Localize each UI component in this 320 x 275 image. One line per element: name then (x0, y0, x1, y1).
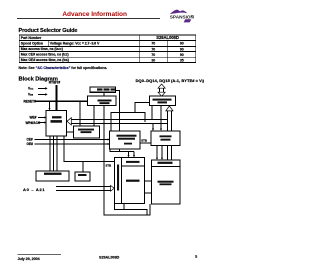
svg-text:70: 70 (151, 47, 155, 51)
svg-text:35: 35 (180, 58, 184, 62)
svg-text:30: 30 (151, 58, 155, 62)
svg-text:70: 70 (151, 42, 155, 46)
svg-text:OE#: OE# (27, 142, 34, 146)
svg-text:Note: See “AC Characteristics”: Note: See “AC Characteristics” for full … (19, 66, 108, 70)
svg-text:Part Number: Part Number (21, 36, 42, 40)
svg-text:S29AL008D: S29AL008D (156, 35, 179, 40)
svg-text:WP#/ACC: WP#/ACC (26, 121, 41, 125)
svg-text:Voltage Range: VCC = 2.7–3.6 V: Voltage Range: VCC = 2.7–3.6 V (50, 42, 100, 46)
svg-text:STB: STB (106, 164, 112, 168)
svg-text:Advance Information: Advance Information (62, 11, 127, 18)
svg-text:CE#: CE# (27, 138, 33, 142)
svg-text:90: 90 (180, 47, 184, 51)
svg-text:S29AL008D: S29AL008D (99, 255, 120, 259)
svg-text:Max access time, ns (tACC): Max access time, ns (tACC) (21, 47, 63, 51)
svg-text:July 29, 2004: July 29, 2004 (18, 257, 41, 261)
svg-text:Speed Option: Speed Option (21, 42, 43, 46)
svg-text:70: 70 (151, 53, 155, 57)
svg-text:VCC: VCC (28, 87, 34, 91)
svg-text:RESET#: RESET# (24, 100, 37, 104)
svg-text:Max CE# access time, ns (tCE): Max CE# access time, ns (tCE) (21, 53, 69, 57)
svg-text:5: 5 (195, 254, 198, 259)
svg-text:WE#: WE# (30, 116, 37, 120)
svg-text:DQ0–DQ14, DQ15 (A-1, BYTE# = V: DQ0–DQ14, DQ15 (A-1, BYTE# = Vₗ) (136, 78, 205, 83)
svg-text:VSS: VSS (28, 93, 34, 97)
svg-text:90: 90 (180, 53, 184, 57)
svg-text:A0 – A21: A0 – A21 (23, 187, 45, 192)
svg-text:Max OE# access time, ns (tOE): Max OE# access time, ns (tOE) (21, 58, 69, 62)
svg-text:Product Selector Guide: Product Selector Guide (19, 28, 78, 34)
svg-text:RY/BY#: RY/BY# (49, 81, 61, 85)
svg-text:STB: STB (141, 138, 147, 142)
svg-text:90: 90 (180, 42, 184, 46)
